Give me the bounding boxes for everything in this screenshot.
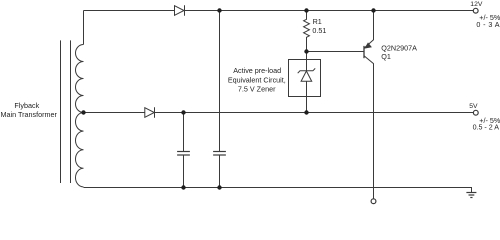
transformer secondary lower winding (75, 113, 83, 187)
junction dot R1 base node (304, 49, 308, 53)
transistor Q1 emitter arrow (364, 42, 372, 48)
wire cap C1 to ground rail (183, 155, 185, 188)
svg-text:Main Transformer: Main Transformer (1, 110, 58, 119)
terminal circle 5V (473, 110, 478, 115)
junction dot transformer tap (81, 110, 85, 114)
wire zener to 5V rail (306, 81, 308, 112)
svg-text:Flyback: Flyback (14, 101, 39, 110)
diode D2 cathode bar (154, 107, 156, 117)
svg-text:5V: 5V (469, 103, 478, 110)
wire ground rail (84, 188, 472, 193)
zener diode triangle (301, 71, 312, 81)
svg-text:12V: 12V (470, 1, 483, 8)
transformer core line left (60, 40, 62, 183)
label Flyback Main Transformer (1, 101, 58, 119)
wire cap C2 to ground rail (219, 155, 221, 188)
wire 5V rail from tap to diode (84, 112, 145, 114)
junction dot top rail Q1 emitter (371, 8, 375, 12)
svg-text:R1: R1 (313, 17, 322, 26)
svg-text:0.5 - 2 A: 0.5 - 2 A (473, 124, 500, 132)
svg-text:Q1: Q1 (381, 52, 391, 61)
transistor Q1 emitter (364, 11, 374, 49)
transistor Q1 collector (364, 56, 374, 199)
transformer secondary upper winding (76, 45, 84, 113)
svg-text:0 - 3 A: 0 - 3 A (476, 20, 500, 29)
svg-text:Equivalent Circuit,: Equivalent Circuit, (228, 76, 286, 85)
wire 12V rail to terminal (185, 10, 474, 12)
wire coil top to 12V rail (83, 11, 85, 45)
zener diode cathode bar with ticks (298, 68, 316, 73)
svg-text:7.5 V Zener: 7.5 V Zener (238, 84, 276, 93)
svg-text:Active pre-load: Active pre-load (233, 66, 281, 75)
diode D1 triangle (175, 6, 185, 16)
junction dot top rail cap C2 (217, 8, 221, 12)
wire 5V rail to terminal (155, 112, 474, 114)
svg-text:0.51: 0.51 (312, 26, 326, 35)
junction dot ground rail cap C2 (217, 185, 221, 189)
zener equivalent-circuit box (289, 60, 321, 97)
transformer core line right (70, 40, 72, 183)
note active pre-load (228, 66, 286, 93)
wire base node to zener (306, 52, 308, 71)
transistor Q1 base bar (363, 46, 365, 58)
terminal circle return (371, 199, 376, 204)
capacitor C2 plates (213, 152, 226, 156)
wire base R1 node to Q1 base (307, 51, 365, 53)
junction dot ground rail cap C1 (181, 185, 185, 189)
ground symbol (466, 193, 476, 198)
junction dot 5V rail zener (304, 110, 308, 114)
diode D2 triangle (145, 108, 155, 118)
resistor R1 (304, 11, 310, 52)
wire cap C1 from 5V rail down (183, 113, 185, 152)
junction dot top rail R1 (304, 8, 308, 12)
capacitor C1 plates (177, 152, 190, 156)
wire cap C2 from 12V rail down (219, 11, 221, 152)
wire 12V rail left segment (84, 10, 175, 12)
diode D1 cathode bar (184, 5, 186, 15)
terminal circle 12V (473, 8, 478, 13)
junction dot 5V rail cap C1 (181, 110, 185, 114)
